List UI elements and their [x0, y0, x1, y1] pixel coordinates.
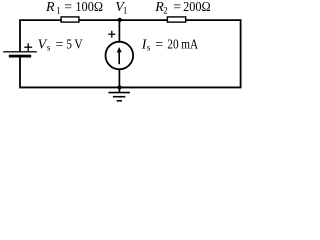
- svg-text:Is=20mA: Is=20mA: [141, 38, 199, 53]
- wire from current source down to bottom rail: [118, 69, 120, 88]
- battery plus sign: [24, 43, 32, 51]
- ground symbol bars: [108, 93, 129, 101]
- ground stub wire: [118, 88, 120, 93]
- svg-text:Vs=5V: Vs=5V: [38, 37, 83, 52]
- current source U1 circle: [106, 42, 134, 70]
- wire outer loop (top rail, right wire, bottom rail, left wire with battery gap): [20, 20, 241, 87]
- resistor R2: [167, 17, 185, 22]
- battery V_s top plate (thin, positive): [3, 51, 37, 52]
- svg-text:V1: V1: [115, 0, 127, 15]
- wire from node V1 down to current source: [118, 20, 120, 42]
- node V1 junction dot: [118, 18, 122, 22]
- bottom junction dot: [117, 85, 121, 89]
- battery V_s bottom plate (thick, negative): [9, 55, 31, 58]
- svg-text:R1=100Ω: R1=100Ω: [45, 0, 103, 15]
- resistor R1: [61, 17, 79, 22]
- current source arrow (pointing up): [118, 51, 120, 64]
- svg-text:R2=200Ω: R2=200Ω: [154, 0, 211, 15]
- current source plus sign: [108, 31, 115, 38]
